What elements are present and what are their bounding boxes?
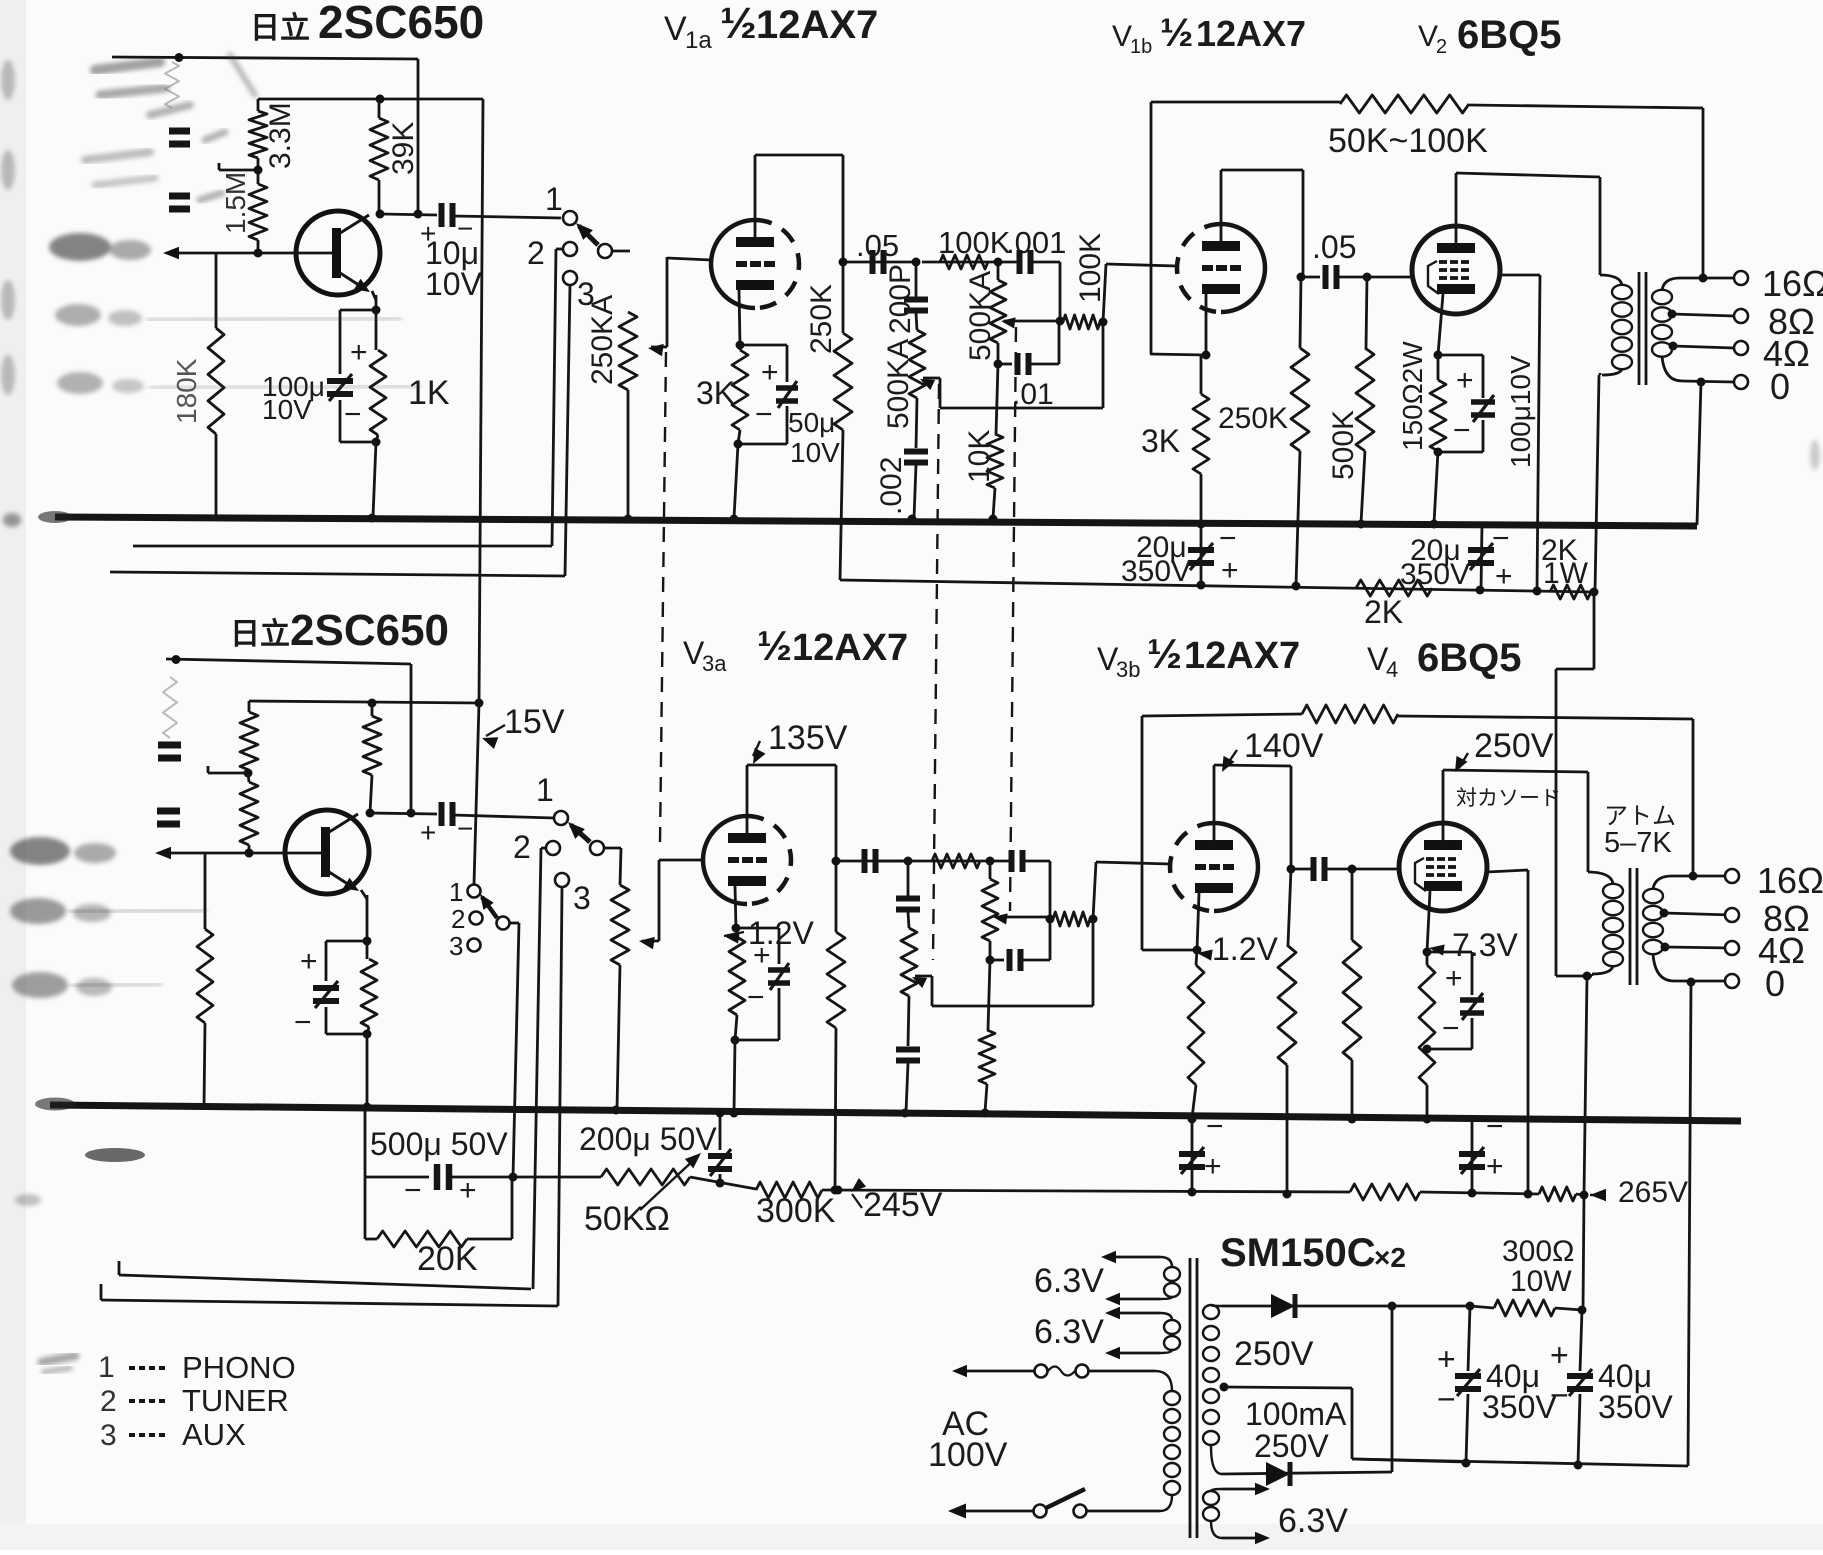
svg-text:10K: 10K <box>963 430 996 483</box>
svg-text:5–7K: 5–7K <box>1604 827 1672 859</box>
svg-text:+: + <box>1204 1150 1222 1183</box>
svg-text:−: − <box>747 981 765 1014</box>
svg-text:10V: 10V <box>425 266 483 302</box>
svg-text:150Ω2W: 150Ω2W <box>1397 341 1428 451</box>
svg-text:3b: 3b <box>1116 657 1140 682</box>
svg-text:6BQ5: 6BQ5 <box>1417 636 1522 680</box>
svg-text:20K: 20K <box>417 1240 478 1278</box>
svg-text:.05: .05 <box>856 228 899 263</box>
svg-text:アトム: アトム <box>1604 803 1676 830</box>
svg-text:3a: 3a <box>702 651 727 676</box>
svg-text:−: − <box>1437 1381 1456 1417</box>
svg-text:39K: 39K <box>387 122 420 175</box>
svg-text:50K~100K: 50K~100K <box>1328 122 1488 160</box>
svg-text:.002: .002 <box>875 457 908 515</box>
svg-text:15V: 15V <box>504 703 565 741</box>
svg-text:6.3V: 6.3V <box>1034 1262 1104 1300</box>
svg-text:10V: 10V <box>262 394 312 425</box>
svg-text:+: + <box>1486 1150 1504 1183</box>
svg-text:135V: 135V <box>768 719 848 757</box>
svg-text:+: + <box>1456 364 1474 397</box>
svg-text:1W: 1W <box>1543 557 1589 590</box>
svg-text:1K: 1K <box>408 374 450 412</box>
svg-text:1: 1 <box>536 772 554 808</box>
svg-text:+: + <box>1495 560 1513 593</box>
svg-text:300Ω: 300Ω <box>1502 1235 1574 1268</box>
svg-text:TUNER: TUNER <box>182 1383 289 1418</box>
svg-text:½: ½ <box>1160 11 1193 55</box>
svg-text:½: ½ <box>720 0 757 48</box>
svg-text:500KA: 500KA <box>882 339 915 429</box>
svg-text:1b: 1b <box>1130 36 1152 58</box>
svg-text:対カソード: 対カソード <box>1456 787 1561 810</box>
svg-text:16Ω: 16Ω <box>1762 263 1823 304</box>
svg-text:350V: 350V <box>1121 555 1191 588</box>
svg-text:180K: 180K <box>171 358 202 424</box>
svg-text:3: 3 <box>573 880 591 916</box>
svg-text:+: + <box>420 817 436 848</box>
svg-text:0: 0 <box>1765 963 1785 1004</box>
svg-text:2SC650: 2SC650 <box>290 606 449 655</box>
svg-text:12AX7: 12AX7 <box>1184 635 1300 677</box>
svg-text:250K: 250K <box>1218 402 1288 435</box>
svg-text:−: − <box>404 1174 422 1207</box>
svg-text:10V: 10V <box>790 437 840 468</box>
svg-text:2SC650: 2SC650 <box>318 0 484 48</box>
svg-text:日立: 日立 <box>230 617 290 651</box>
svg-text:250K: 250K <box>805 284 838 354</box>
svg-text:1.5M: 1.5M <box>220 172 251 234</box>
svg-text:350V: 350V <box>1482 1389 1557 1425</box>
svg-text:3.3M: 3.3M <box>264 102 297 169</box>
svg-text:−: − <box>344 398 362 431</box>
svg-text:1: 1 <box>98 1351 115 1384</box>
svg-text:V: V <box>664 10 687 48</box>
svg-text:2: 2 <box>527 235 545 271</box>
svg-text:2: 2 <box>513 829 531 865</box>
svg-text:−: − <box>294 1006 312 1039</box>
svg-text:V: V <box>1418 20 1438 53</box>
svg-text:12AX7: 12AX7 <box>792 627 908 669</box>
svg-text:−: − <box>1219 522 1237 555</box>
svg-text:0: 0 <box>1770 366 1790 407</box>
svg-text:245V: 245V <box>863 1186 943 1224</box>
svg-text:12AX7: 12AX7 <box>756 3 878 47</box>
svg-text:−: − <box>1442 1012 1460 1045</box>
svg-text:½: ½ <box>757 622 792 669</box>
svg-text:.05: .05 <box>1312 229 1356 265</box>
svg-text:+: + <box>1445 962 1463 995</box>
svg-text:100K: 100K <box>938 225 1011 260</box>
svg-text:12AX7: 12AX7 <box>1196 13 1306 54</box>
svg-text:6.3V: 6.3V <box>1278 1502 1348 1540</box>
svg-text:−: − <box>755 398 773 431</box>
svg-text:日立: 日立 <box>250 11 310 45</box>
svg-text:1: 1 <box>449 877 463 907</box>
svg-text:1a: 1a <box>685 27 712 54</box>
svg-text:−: − <box>457 813 473 844</box>
svg-text:16Ω: 16Ω <box>1757 860 1823 901</box>
svg-text:100mA: 100mA <box>1245 1396 1347 1432</box>
svg-text:4: 4 <box>1386 657 1398 682</box>
svg-text:−: − <box>1492 522 1510 555</box>
svg-text:+: + <box>761 356 779 389</box>
svg-text:×2: ×2 <box>1374 1242 1406 1273</box>
svg-text:+: + <box>459 1174 477 1207</box>
svg-text:100μ10V: 100μ10V <box>1505 355 1536 468</box>
svg-text:2K: 2K <box>1364 594 1403 630</box>
svg-text:1: 1 <box>545 181 563 217</box>
svg-text:3: 3 <box>449 931 463 961</box>
svg-text:50μ: 50μ <box>788 407 835 438</box>
svg-text:+: + <box>1221 554 1239 587</box>
svg-text:350V: 350V <box>1598 1389 1673 1425</box>
svg-text:10W: 10W <box>1510 1265 1572 1298</box>
svg-text:+: + <box>350 336 368 369</box>
svg-text:−: − <box>1453 414 1471 447</box>
svg-text:6BQ5: 6BQ5 <box>1457 13 1562 57</box>
svg-text:500K: 500K <box>1327 410 1360 480</box>
svg-text:200P: 200P <box>884 264 917 334</box>
svg-text:+: + <box>300 945 318 978</box>
svg-text:2: 2 <box>451 904 465 934</box>
svg-text:AUX: AUX <box>182 1417 246 1452</box>
svg-text:½: ½ <box>1147 630 1182 677</box>
svg-text:200μ 50V: 200μ 50V <box>579 1121 717 1157</box>
svg-text:.01: .01 <box>1012 378 1054 411</box>
svg-text:V: V <box>1112 20 1132 53</box>
svg-text:−: − <box>1550 1377 1569 1413</box>
svg-text:3K: 3K <box>696 375 735 411</box>
svg-text:6.3V: 6.3V <box>1034 1313 1104 1351</box>
svg-text:3: 3 <box>100 1419 117 1452</box>
svg-text:250V: 250V <box>1234 1335 1314 1373</box>
svg-text:350V: 350V <box>1400 558 1470 591</box>
svg-text:300K: 300K <box>756 1192 836 1230</box>
svg-text:500KA: 500KA <box>964 271 997 361</box>
svg-text:+: + <box>1550 1337 1569 1373</box>
svg-text:−: − <box>1486 1110 1504 1143</box>
svg-text:140V: 140V <box>1244 727 1324 765</box>
svg-text:250V: 250V <box>1254 1428 1329 1464</box>
svg-text:100V: 100V <box>928 1436 1008 1474</box>
svg-text:50KΩ: 50KΩ <box>584 1200 670 1238</box>
svg-text:SM150C: SM150C <box>1220 1231 1376 1275</box>
svg-text:7.3V: 7.3V <box>1452 927 1518 963</box>
svg-text:PHONO: PHONO <box>182 1350 296 1385</box>
svg-text:+: + <box>1437 1341 1456 1377</box>
svg-text:250KA: 250KA <box>586 295 619 385</box>
svg-text:500μ 50V: 500μ 50V <box>370 1126 508 1162</box>
svg-text:−: − <box>1206 1110 1224 1143</box>
svg-text:250V: 250V <box>1474 727 1554 765</box>
svg-text:265V: 265V <box>1618 1176 1688 1209</box>
svg-text:1.2V: 1.2V <box>748 915 814 951</box>
svg-text:1.2V: 1.2V <box>1212 931 1278 967</box>
svg-text:2: 2 <box>1436 36 1447 58</box>
svg-text:100K: 100K <box>1074 233 1107 303</box>
svg-text:2: 2 <box>100 1385 117 1418</box>
svg-text:.001: .001 <box>1006 225 1066 260</box>
svg-text:3K: 3K <box>1141 423 1180 459</box>
